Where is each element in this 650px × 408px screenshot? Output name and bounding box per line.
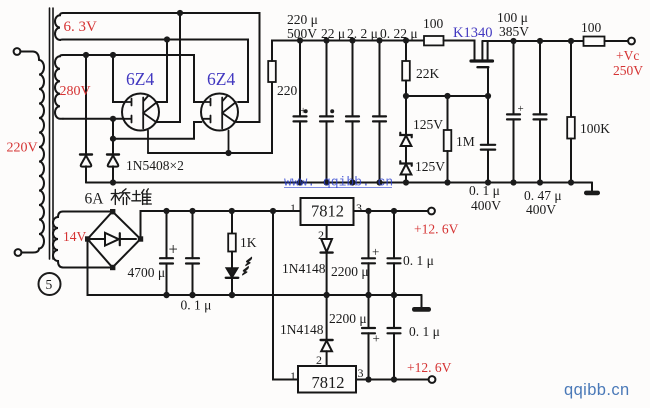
transformer primary winding 220V [39, 60, 44, 249]
transformer core [50, 8, 54, 259]
svg-text:+: + [300, 105, 306, 117]
transformer secondary winding 280V [55, 55, 63, 119]
capacitor C10 2200u [368, 211, 370, 258]
svg-text:+: + [372, 244, 379, 259]
svg-text:1N4148: 1N4148 [280, 322, 324, 337]
regulator U1 7812 [301, 198, 354, 225]
svg-text:6A: 6A [85, 191, 105, 208]
wire [20, 52, 39, 61]
capacitor C7 0.47u 400V [539, 41, 541, 114]
svg-text:2: 2 [316, 353, 322, 367]
svg-text:2200 μ: 2200 μ [329, 311, 367, 326]
capacitor C8 4700u [166, 211, 168, 258]
wire to +Vc terminal [605, 40, 629, 42]
svg-text:220V: 220V [7, 141, 38, 156]
tube V2 6Z4 envelope [201, 94, 238, 131]
capacitor C9 0.1u [192, 211, 194, 258]
mosfet Q1 gate lead [487, 67, 489, 96]
svg-text:100 μ: 100 μ [497, 10, 528, 25]
svg-text:220: 220 [277, 83, 298, 98]
svg-text:0. 1 μ: 0. 1 μ [403, 253, 434, 268]
capacitor C5 0.1u 400V [487, 96, 489, 145]
wire 280V top tap to tube1 plate [113, 55, 123, 102]
svg-text:qqibb.cn: qqibb.cn [564, 381, 630, 399]
svg-text:3: 3 [356, 201, 362, 215]
terminal +12.6V #1 [428, 208, 435, 215]
diode D1 1N5408 [80, 153, 92, 155]
wire 280V bottom tap down to diode D2 [112, 119, 114, 154]
svg-text:0. 1 μ: 0. 1 μ [469, 183, 500, 198]
wire U2 out [356, 379, 429, 381]
svg-text:7812: 7812 [312, 373, 345, 392]
svg-text:4700 μ: 4700 μ [128, 265, 166, 280]
ground chassis LV [421, 295, 423, 308]
svg-text:6. 3V: 6. 3V [64, 19, 98, 35]
circle of circled 5 [39, 273, 61, 295]
svg-text:100K: 100K [580, 121, 610, 136]
svg-text:2200 μ: 2200 μ [331, 264, 369, 279]
svg-text:400V: 400V [471, 198, 501, 213]
svg-text:22K: 22K [416, 66, 440, 81]
capacitor C2 22u [326, 41, 328, 117]
wire 6.3V top rail y13 [63, 13, 260, 122]
diode D4 1N4148 [326, 295, 328, 340]
ground chassis HV [591, 183, 593, 192]
terminal +12.6V #2 [429, 376, 436, 383]
svg-text:+12. 6V: +12. 6V [407, 360, 452, 375]
wire to tube2 lower plate [113, 122, 202, 139]
wire 280V top y55 to tube2 plate [63, 55, 202, 102]
wire bridge minus to LV ground rail [88, 239, 422, 295]
resistor R1 220 [268, 61, 276, 82]
svg-text:3: 3 [358, 366, 364, 380]
capacitor C13 0.1u [393, 295, 395, 328]
svg-text:6Z4: 6Z4 [126, 69, 154, 89]
svg-text:7812: 7812 [311, 202, 344, 221]
svg-text:+: + [373, 331, 380, 346]
transformer secondary winding 14V [53, 212, 63, 268]
polarity dot C2 [330, 109, 334, 113]
svg-text:0. 22 μ: 0. 22 μ [380, 26, 418, 41]
transformer primary terminal top [14, 48, 21, 55]
svg-text:1K: 1K [240, 235, 257, 250]
svg-text:0. 1 μ: 0. 1 μ [409, 324, 440, 339]
svg-text:14V: 14V [63, 229, 87, 244]
svg-text:100: 100 [581, 20, 602, 35]
wire heater tube1 right-bottom to y13 [156, 13, 180, 122]
transformer secondary winding 6.3V [55, 13, 63, 40]
svg-text:1N4148: 1N4148 [282, 261, 326, 276]
resistor R4 22K [405, 41, 407, 62]
LED arrows [242, 257, 252, 276]
wire raw DC down to U2 input [273, 211, 298, 380]
bridge inner diode [90, 238, 136, 240]
svg-text:500V: 500V [287, 26, 317, 41]
mosfet Q1 K1340 channel bar [471, 59, 493, 62]
svg-text:250V: 250V [613, 63, 643, 78]
LED indicator [227, 268, 238, 277]
wire diode D1 feed from 280V top [85, 55, 87, 154]
hanzi 桥堆 (bridge stack) approximated strokes [111, 189, 151, 205]
capacitor C12 2200u [368, 295, 370, 328]
svg-text:+12. 6V: +12. 6V [414, 222, 459, 237]
svg-text:385V: 385V [499, 24, 529, 39]
mosfet Q1 gate bar [478, 66, 489, 68]
wire R1 top to B+ rail [272, 41, 424, 62]
wire [21, 249, 39, 253]
capacitor C4 0.22u [379, 41, 381, 117]
svg-text:220 μ: 220 μ [287, 12, 318, 27]
capacitor C1 220u 500V [299, 41, 301, 117]
svg-text:1: 1 [290, 201, 296, 215]
diode D2 1N5408 [107, 153, 119, 155]
wire heater tube1 right-top to y39 [157, 40, 167, 103]
resistor R7 1K [231, 211, 233, 234]
svg-text:1M: 1M [456, 134, 475, 149]
resistor R5 1M [447, 96, 449, 130]
regulator U2 7812 [298, 366, 356, 393]
svg-text:5: 5 [46, 277, 53, 292]
svg-text:400V: 400V [526, 202, 556, 217]
capacitor C6 100u 385V [513, 41, 515, 114]
svg-text:125V: 125V [413, 117, 443, 132]
terminal +Vc [628, 38, 635, 45]
svg-text:280V: 280V [60, 84, 91, 99]
wire bridge plus to raw DC rail y211 [141, 211, 301, 239]
tube V1 6Z4 envelope [122, 94, 159, 131]
wire 280V bottom y118.8 [63, 118, 124, 120]
svg-text:0. 1 μ: 0. 1 μ [181, 298, 212, 313]
tube V2 internals [202, 96, 237, 154]
svg-text:22 μ: 22 μ [321, 26, 345, 41]
wire gate node y96 [406, 95, 488, 97]
wire output rail y41 [482, 40, 583, 42]
wire 14V top to bridge AC1 [63, 211, 113, 213]
svg-text:2. 2 μ: 2. 2 μ [347, 26, 378, 41]
wire HV ground rail y182.5 [86, 182, 592, 184]
bridge rectifier 6A [88, 212, 141, 268]
svg-text:1: 1 [290, 369, 296, 383]
svg-text:100: 100 [423, 16, 444, 31]
polarity dot C1 [304, 109, 308, 113]
zener ZD2 125V [405, 146, 407, 164]
transformer primary terminal bottom [15, 249, 22, 256]
zener ZD1 125V [405, 96, 407, 135]
capacitor C11 0.1u [393, 211, 395, 258]
wire 14V bottom to bridge AC2 [63, 267, 113, 269]
svg-text:125V: 125V [415, 159, 445, 174]
svg-text:K1340: K1340 [453, 25, 492, 41]
diode D3 1N4148 [326, 225, 328, 239]
wire R2 to mosfet drain [444, 41, 475, 60]
resistor R3 100 [584, 37, 605, 46]
resistor R6 100K [570, 41, 572, 117]
svg-text:2: 2 [318, 228, 324, 242]
svg-text:+: + [169, 240, 178, 259]
svg-text:+: + [518, 103, 524, 115]
tube V1 internals [123, 96, 158, 154]
wire 6.3V bottom rail y39 [63, 40, 248, 103]
svg-text:1N5408×2: 1N5408×2 [126, 158, 184, 173]
svg-text:0. 47 μ: 0. 47 μ [524, 188, 562, 203]
svg-text:6Z4: 6Z4 [207, 69, 235, 89]
mosfet Q1 source leads [482, 41, 487, 59]
svg-text:+Vc: +Vc [616, 48, 639, 63]
wire U1 out y211 [354, 210, 429, 212]
resistor R2 100 [424, 36, 444, 45]
capacitor C3 2.2u [352, 41, 354, 117]
wire cathode rail y153 [148, 82, 272, 153]
